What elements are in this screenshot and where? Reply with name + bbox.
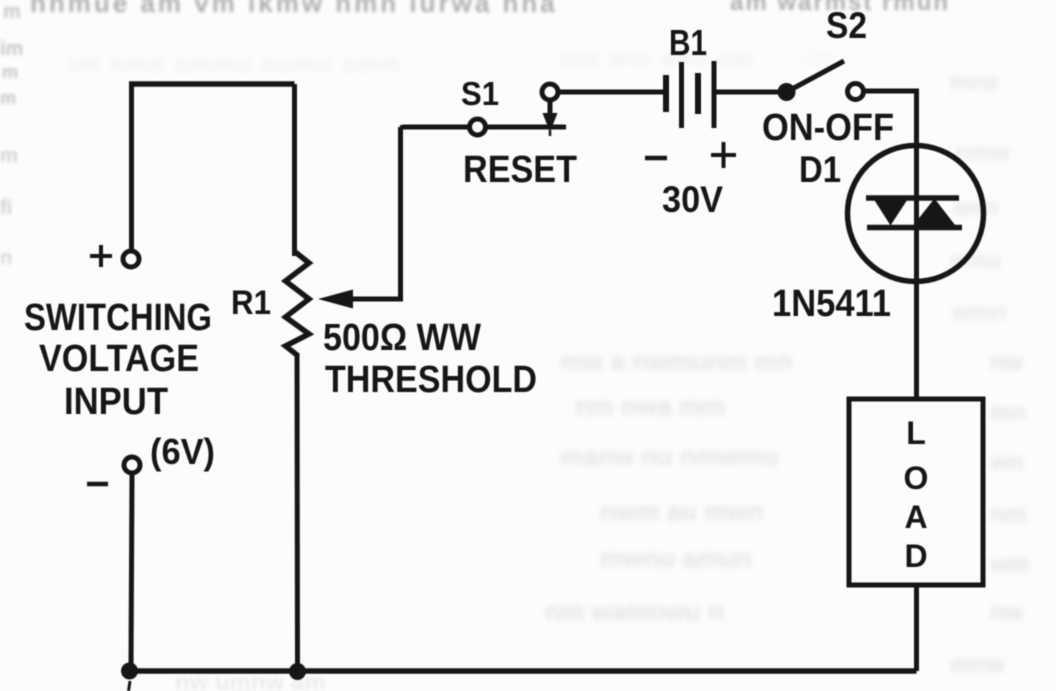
load box (849, 399, 983, 585)
diode D1 circle body (848, 146, 984, 282)
switch S1: lower wire segment (403, 125, 470, 127)
svg-text:m: m (3, 1, 21, 23)
svg-text:im nme ammu numv awm: im nme ammu numv awm (70, 51, 402, 78)
svg-text:wm: wm (989, 551, 1030, 578)
mark: small tick below left junction (129, 681, 131, 691)
svg-text:S1: S1 (461, 75, 499, 112)
junction: R1 bottom dot (289, 663, 306, 680)
svg-text:O: O (904, 460, 929, 496)
switch S1: upper terminal open circle (542, 84, 558, 100)
junction: bottom-left dot (121, 663, 138, 680)
resistor R1 zigzag (286, 253, 310, 355)
bleed-through ghost text (decorative) (30, 0, 950, 18)
svg-text:wn: wn (989, 449, 1023, 476)
svg-text:D1: D1 (799, 149, 841, 190)
label: battery plus sign (711, 142, 736, 168)
svg-text:wmn: wmn (951, 299, 1007, 326)
svg-text:mw a nwmunm mn: mw a nwmunm mn (560, 346, 793, 376)
svg-text:nwm au mwn: nwm au mwn (600, 496, 763, 526)
wire: top horizontal bus (129, 81, 295, 87)
diode D1 left triangle (down) (873, 198, 909, 226)
svg-text:nm nwa mm: nm nwa mm (575, 391, 725, 421)
svg-text:mn: mn (990, 399, 1026, 426)
diode D1 top bar (866, 195, 959, 201)
svg-text:ON-OFF: ON-OFF (762, 107, 894, 149)
switch S2: pole filled dot (778, 83, 796, 101)
svg-text:mne: mne (950, 69, 999, 96)
wire: S1 to battery B1 (558, 90, 663, 95)
svg-text:THRESHOLD: THRESHOLD (325, 359, 537, 401)
svg-text:VOLTAGE: VOLTAGE (39, 338, 199, 380)
svg-text:nw: nw (990, 349, 1024, 376)
svg-text:1N5411: 1N5411 (772, 283, 891, 325)
svg-text:m: m (0, 145, 18, 167)
svg-text:m: m (0, 88, 16, 108)
label: minus sign of input (87, 482, 108, 487)
wire: left vertical down to + terminal (129, 84, 134, 250)
svg-text:mu wm aen nw: mu wm aen nw (560, 45, 755, 72)
svg-text:D: D (904, 538, 927, 574)
svg-text:INPUT: INPUT (64, 381, 168, 423)
wire: from - terminal down to bottom bus (131, 473, 132, 669)
switch S2: throw open circle (848, 84, 864, 100)
wire: bottom bus (128, 668, 917, 674)
svg-text:R1: R1 (231, 284, 271, 322)
wire: right vertical from top bus to R1 (292, 84, 297, 256)
svg-text:awn: awn (952, 194, 999, 221)
svg-text:mnw: mnw (950, 651, 1005, 678)
diode D1 bottom bar (867, 225, 962, 231)
label: battery minus sign (645, 156, 667, 161)
svg-text:mwnu amun: mwnu amun (600, 543, 752, 573)
wire: battery to S2 (716, 90, 786, 95)
switch S1: lower contact open circle (470, 119, 486, 135)
svg-text:n: n (0, 247, 12, 269)
svg-text:nm wamnwu n: nm wamnwu n (545, 596, 724, 626)
svg-text:(6V): (6V) (150, 431, 215, 472)
svg-text:fi: fi (0, 197, 12, 219)
switch S2: blade (787, 61, 845, 92)
wiper arm: vertical from S1 wire, horizontal to arrowhead (350, 127, 401, 299)
svg-text:nw: nw (990, 599, 1024, 626)
switch S1: lower wire right segment (486, 125, 566, 130)
svg-text:nnmue am vm ikmw nmn iurwa nna: nnmue am vm ikmw nmn iurwa nna (30, 0, 558, 18)
wire: LOAD bottom to bottom bus (914, 585, 919, 671)
label: plus sign of input (90, 245, 112, 267)
svg-text:m: m (2, 62, 18, 82)
wire: S2 to D1 branch corner (865, 91, 917, 150)
svg-text:SWITCHING: SWITCHING (24, 297, 212, 339)
svg-text:nm: nm (990, 501, 1026, 528)
wire: R1 bottom lead (295, 353, 301, 671)
svg-text:500Ω WW: 500Ω WW (323, 317, 481, 359)
svg-text:manw nu nmwmu: manw nu nmwmu (560, 441, 778, 471)
svg-text:RESET: RESET (463, 149, 577, 191)
battery B1 plates (666, 61, 714, 128)
diode D1 right triangle (up) (912, 199, 958, 228)
label LOAD stacked (904, 415, 929, 574)
switch S1: plunger arrow (543, 101, 558, 136)
svg-text:30V: 30V (662, 179, 723, 220)
svg-text:im: im (0, 38, 23, 60)
terminal: - input open circle (124, 457, 140, 473)
svg-text:A: A (904, 499, 927, 535)
wiper arrowhead (318, 290, 353, 309)
wire: vertical through D1 down to LOAD (914, 145, 919, 400)
svg-text:B1: B1 (669, 22, 707, 63)
svg-text:S2: S2 (826, 5, 867, 46)
terminal: + input open circle (123, 251, 139, 267)
svg-text:L: L (906, 415, 926, 451)
